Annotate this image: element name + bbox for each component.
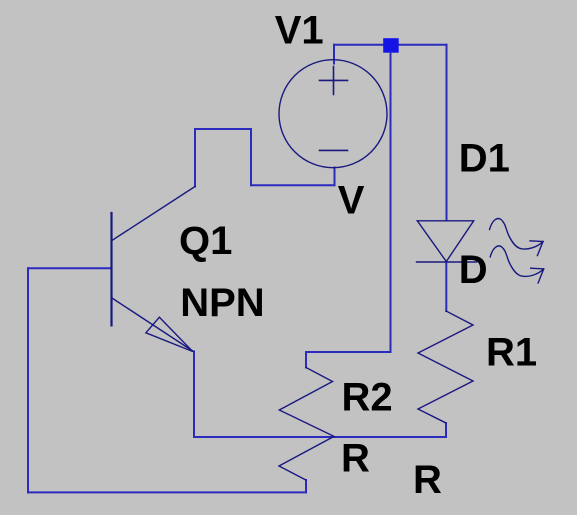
wire bottom horizontal to R2 bottom	[28, 491, 306, 493]
svg-text:R: R	[413, 458, 442, 502]
LED light arrow upper	[490, 219, 544, 256]
transistor Q1 emitter line	[113, 299, 194, 352]
wire R1 bottom stub	[445, 423, 447, 437]
V1 minus sign	[320, 149, 348, 151]
node junction square	[383, 38, 399, 53]
transistor Q1 base bar	[110, 213, 112, 325]
transistor Q1 collector line	[112, 187, 195, 241]
wire collector bump right vertical	[250, 129, 252, 185]
diode D1 cathode bar	[417, 261, 477, 263]
wire V1 top lead	[333, 45, 335, 64]
wire emitter vertical	[193, 352, 195, 438]
wire collector bump left vertical	[194, 129, 196, 187]
svg-text:V1: V1	[275, 9, 324, 53]
resistor R2 zigzag	[279, 368, 334, 481]
svg-text:R2: R2	[342, 375, 393, 419]
svg-text:Q1: Q1	[179, 219, 232, 263]
svg-text:NPN: NPN	[180, 281, 264, 325]
svg-text:R1: R1	[486, 330, 537, 374]
LED light arrow lower	[490, 246, 544, 283]
diode D1 triangle	[417, 221, 473, 262]
V1 plus sign	[320, 66, 348, 94]
resistor R1 zigzag	[418, 311, 473, 423]
wire R2 bottom stub	[305, 480, 307, 492]
wire base horizontal	[28, 267, 112, 269]
svg-text:D: D	[459, 248, 488, 292]
wire V1 bottom horizontal	[251, 184, 335, 186]
wire top horizontal to D1 branch	[334, 44, 447, 46]
svg-text:R: R	[341, 436, 370, 480]
wire D1 cathode to R1 top	[445, 262, 447, 311]
wire left vertical	[27, 268, 29, 492]
transistor Q1 emitter arrow	[146, 317, 193, 351]
wire collector bump top	[195, 128, 251, 130]
svg-text:V: V	[338, 179, 365, 223]
wire horizontal to R2 top	[306, 351, 391, 353]
wire emitter to R1 bottom horizontal	[194, 436, 446, 438]
wire right vertical down to D1 anode	[446, 45, 448, 220]
voltage source V1 circle	[279, 60, 387, 168]
svg-text:D1: D1	[459, 137, 510, 181]
wire V1 bottom lead	[334, 168, 336, 186]
wire R2 top stub	[305, 352, 307, 368]
wire from junction down to R2 branch	[390, 53, 392, 353]
